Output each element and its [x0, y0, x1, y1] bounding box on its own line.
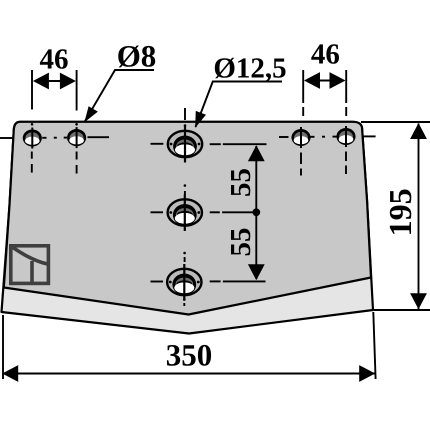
svg-text:55: 55: [225, 228, 257, 257]
svg-text:195: 195: [382, 188, 418, 236]
svg-text:350: 350: [166, 338, 213, 373]
svg-text:Ø8: Ø8: [117, 39, 157, 74]
svg-text:46: 46: [311, 39, 340, 71]
svg-text:55: 55: [225, 168, 257, 197]
svg-text:46: 46: [40, 44, 69, 76]
svg-text:Ø12,5: Ø12,5: [213, 53, 286, 85]
